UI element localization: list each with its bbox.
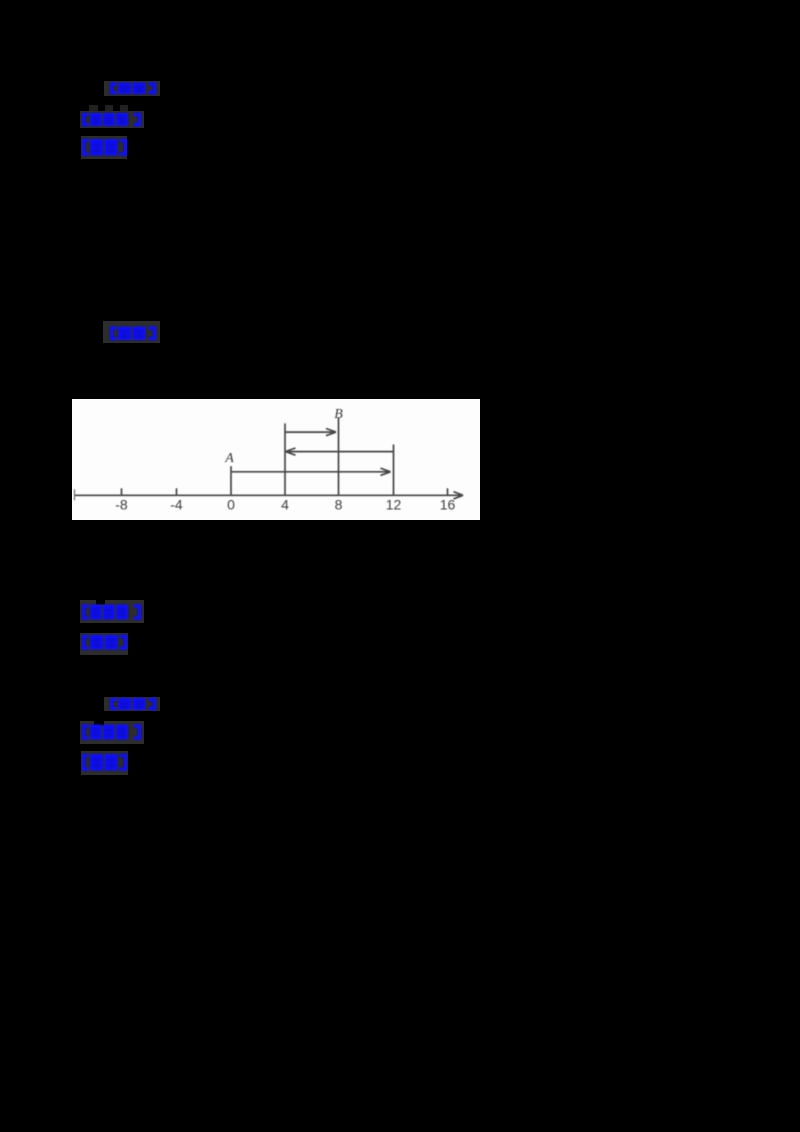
svg-text:4: 4 [281,497,289,513]
svg-text:-8: -8 [115,497,128,513]
svg-text:B: B [334,407,343,422]
svg-text:16: 16 [440,497,456,513]
svg-text:0: 0 [227,497,235,513]
svg-text:8: 8 [335,497,343,513]
svg-text:-4: -4 [170,497,183,513]
svg-text:A: A [224,451,234,466]
svg-text:12: 12 [386,497,402,513]
